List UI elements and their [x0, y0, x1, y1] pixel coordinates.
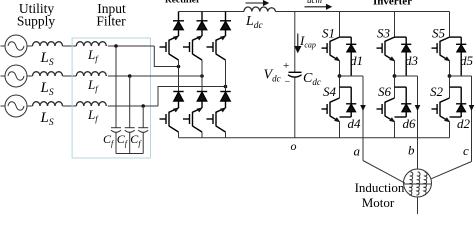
rectifier leg 1	[160, 12, 185, 138]
diode bottom D2b	[197, 92, 207, 109]
motor stator mid line	[404, 183, 432, 185]
wire S6 emitter to rail	[394, 122, 396, 138]
wire row3 filter output	[108, 105, 158, 107]
wire S2 emitter to rail	[449, 122, 451, 138]
svg-text:Cf: Cf	[103, 132, 115, 148]
igbt S3	[377, 37, 396, 61]
svg-text:ucm: ucm	[307, 0, 322, 5]
svg-text:d6: d6	[403, 116, 417, 131]
igbt Q1b	[160, 107, 180, 132]
capacitor Cf2	[125, 76, 135, 154]
svg-text:Cdc: Cdc	[303, 71, 321, 87]
inductor Ls1	[33, 42, 63, 46]
svg-text:Icap: Icap	[299, 33, 316, 50]
diode d2	[450, 87, 467, 117]
wire S5 collector	[449, 12, 451, 38]
svg-text:c: c	[463, 143, 469, 158]
wire S6 collector	[394, 76, 396, 98]
wire S3 emitter to midpoint	[394, 61, 396, 76]
svg-text:LS: LS	[40, 80, 54, 98]
inverter leg a	[322, 12, 405, 184]
svg-text:S2: S2	[430, 84, 444, 99]
diode top D2t	[197, 12, 208, 37]
svg-text:a: a	[354, 144, 361, 159]
svg-text:b: b	[408, 143, 415, 158]
node rail3 col3	[224, 85, 228, 89]
wire S1 emitter to midpoint	[339, 61, 341, 76]
induction motor	[404, 169, 432, 215]
wire midpoint a to phase	[340, 75, 364, 77]
diode d4	[340, 87, 357, 117]
svg-text:Ldc: Ldc	[245, 14, 264, 31]
igbt Q3t	[207, 35, 227, 60]
svg-text:Lf: Lf	[87, 47, 99, 64]
svg-text:Rectifier: Rectifier	[165, 0, 201, 6]
arrow idc (label clipped)	[246, 1, 269, 5]
svg-text:S3: S3	[377, 26, 391, 41]
igbt Q3b	[207, 107, 227, 132]
diode top D3t	[220, 12, 231, 37]
igbt S6	[377, 98, 396, 122]
svg-text:Lf: Lf	[87, 107, 99, 124]
wire motor shaft bottom	[417, 197, 419, 215]
svg-text:LS: LS	[40, 110, 54, 128]
svg-text:−: −	[285, 77, 291, 88]
svg-text:Induction: Induction	[355, 180, 405, 195]
svg-text:Inverter: Inverter	[373, 0, 412, 8]
inductor Lf3	[76, 102, 106, 106]
node midpoint c	[448, 74, 452, 78]
diode d5	[450, 37, 467, 76]
wire S1 collector	[339, 12, 341, 38]
wire phase a slant to motor	[363, 161, 405, 184]
svg-text:S1: S1	[322, 26, 335, 41]
inverter leg c	[430, 12, 474, 179]
igbt Q1t	[160, 35, 180, 60]
wire phase3 jog up	[158, 87, 226, 107]
inductor Lf1	[76, 42, 106, 46]
rectifier leg 2	[183, 12, 208, 138]
node row1/cap1	[114, 44, 118, 48]
svg-text:+: +	[283, 60, 289, 72]
diode bottom D3b	[220, 92, 230, 109]
inductor Lf2	[76, 72, 106, 76]
inductor Ls2	[33, 72, 63, 76]
wire S4 emitter to rail	[339, 122, 341, 138]
inverter leg b	[377, 12, 421, 170]
wire phase a vertical	[362, 76, 364, 161]
svg-text:Vdc: Vdc	[264, 68, 281, 84]
wire leg1 to bottom rail	[178, 132, 180, 138]
svg-text:S5: S5	[432, 26, 446, 41]
top dc rail	[179, 11, 245, 13]
svg-text:d5: d5	[460, 53, 474, 68]
capacitor Cf1	[111, 46, 121, 154]
wire capacitor star rail	[116, 153, 143, 155]
wire midpoint b to phase	[395, 75, 418, 77]
svg-text:Motor: Motor	[362, 195, 395, 210]
arrow phase b current	[415, 105, 421, 111]
diode d1	[340, 37, 357, 76]
diode d3	[395, 37, 412, 76]
wire S2 collector	[449, 76, 451, 98]
rectifier leg 3	[207, 12, 232, 138]
wire leg3 to bottom rail	[225, 132, 227, 138]
wire row2 filter output	[108, 75, 202, 77]
igbt S5	[432, 37, 451, 61]
diode top D1t	[173, 12, 184, 37]
arrow Icap	[295, 34, 301, 53]
wire phase c vertical	[471, 76, 473, 162]
motor coil 2	[416, 172, 420, 195]
svg-text:d3: d3	[405, 53, 419, 68]
wire phase b vertical	[417, 76, 419, 169]
node row2/cap2	[128, 74, 132, 78]
inductor Ldc	[244, 7, 275, 12]
wire leg2 midpoint	[201, 60, 203, 92]
motor coil 3	[423, 172, 427, 195]
svg-text:S4: S4	[323, 84, 337, 99]
node midpoint a	[338, 74, 342, 78]
igbt S1	[322, 37, 341, 61]
svg-text:LS: LS	[40, 50, 54, 68]
svg-text:Lf: Lf	[87, 77, 99, 94]
wire Ls2 to filter	[63, 75, 77, 77]
bottom dc rail	[179, 137, 450, 139]
wire midpoint c to phase	[450, 75, 472, 77]
svg-text:S6: S6	[378, 84, 392, 99]
igbt Q2t	[183, 35, 203, 60]
wire row1 filter output	[108, 45, 155, 47]
ac source Va	[1, 35, 33, 57]
wire leg3 midpoint	[225, 60, 227, 92]
wire S3 collector	[394, 12, 396, 38]
igbt S2	[432, 98, 451, 122]
wire phase c slant to motor	[431, 162, 471, 179]
wire leg1 midpoint	[178, 60, 180, 92]
wire Ls1 to filter	[63, 45, 77, 47]
node midpoint b	[393, 74, 397, 78]
svg-text:Cf: Cf	[117, 132, 129, 148]
wire Ls3 to filter	[63, 105, 77, 107]
ac source Vb	[1, 65, 33, 87]
input filter box	[72, 38, 150, 158]
wire S4 collector	[339, 76, 341, 98]
svg-text:Supply: Supply	[17, 14, 56, 29]
diode d6	[395, 87, 412, 117]
node row3/cap3	[141, 104, 145, 108]
motor coil 1	[409, 172, 413, 195]
wire S5 emitter to midpoint	[449, 61, 451, 76]
capacitor Cf3	[138, 106, 148, 154]
svg-text:d2: d2	[457, 116, 471, 131]
svg-text:Filter: Filter	[96, 14, 126, 29]
node rail1 col1	[177, 65, 181, 69]
svg-text:o: o	[291, 139, 297, 153]
dc link capacitor branch	[288, 12, 302, 138]
svg-text:d4: d4	[348, 116, 362, 131]
wire phase1 jog down	[154, 46, 178, 67]
inductor Ls3	[33, 102, 63, 106]
arrow phase a current	[360, 105, 366, 111]
ac source Vc	[1, 95, 33, 117]
diode bottom D1b	[173, 92, 183, 109]
igbt S4	[322, 98, 341, 122]
svg-text:Cf: Cf	[130, 132, 142, 148]
wire leg2 to bottom rail	[201, 132, 203, 138]
svg-text:d1: d1	[350, 53, 363, 68]
arrow phase c current	[469, 105, 474, 111]
igbt Q2b	[183, 107, 203, 132]
node rail2 col2	[200, 74, 204, 78]
